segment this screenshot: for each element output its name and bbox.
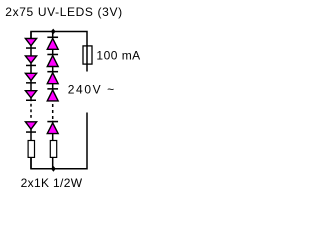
svg-text:2x75 UV-LEDS (3V): 2x75 UV-LEDS (3V) <box>5 5 122 19</box>
svg-text:100 mA: 100 mA <box>96 49 140 63</box>
svg-text:2x1K 1/2W: 2x1K 1/2W <box>21 176 83 190</box>
svg-text:240V ~: 240V ~ <box>68 83 114 97</box>
